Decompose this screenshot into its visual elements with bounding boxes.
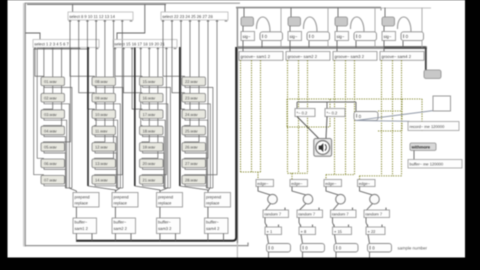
top cord bus along window top (left section) [27, 3, 166, 5]
cord select outlet 6 to wav box 13.wav [95, 20, 114, 159]
svg-text:+ 1: + 1 [267, 229, 273, 234]
message box 26.wav [182, 143, 206, 152]
cord 08.wav outlet to prepend replace 2 [95, 86, 123, 188]
outlet tick 7 of select 8 9 10 11 12 13 14 [121, 20, 124, 22]
object box select 8 9 10 11 12 13 14 [68, 12, 133, 20]
object box random 7 number 4 [364, 210, 390, 218]
cord select outlet 7 to wav box 07.wav [34, 48, 88, 176]
svg-text:withmore: withmore [411, 145, 431, 150]
object box groove~ sam4 2 [380, 52, 424, 61]
cord buffer~ sam2 outlet right to bottom bus [130, 234, 132, 241]
signal cord groove~ sam4 outlet 2 down to edge~ [392, 60, 394, 176]
cord number box to bus unit 1 [261, 41, 263, 48]
cord 10.wav outlet to prepend replace 2 [95, 118, 118, 188]
number box near gains [354, 112, 378, 121]
cord from window top down right side of unit 4 [421, 8, 423, 48]
cord from window top down right side of unit 3 [374, 8, 376, 48]
object box prepend replace 2 [112, 193, 138, 208]
object box edge~ 1 [256, 180, 274, 187]
inlet tick of random 7 number 4 [385, 208, 387, 210]
thick cord down left side of column 2 [87, 47, 89, 186]
inlet ticks of + 15 [333, 225, 335, 227]
cord 20.wav outlet to prepend replace 3 [143, 168, 164, 188]
cord + 15 to number box 3 [335, 235, 337, 244]
right patcher window left border [236, 8, 238, 243]
thick dark cord bus from groove bus down and left to buffers [76, 47, 236, 241]
svg-text:buffer~: buffer~ [75, 219, 88, 224]
dark cord drop from bus into stop message box [425, 48, 427, 70]
letterbox bottom black bar [0, 258, 480, 270]
object box buffer~ me 120000 [408, 160, 462, 169]
cord message box to sig~ unit 3 [336, 26, 338, 32]
cord withmore to buffer~ me [413, 151, 415, 160]
cord number box 4 down off-screen [369, 252, 371, 258]
cord select outlet 4 to wav box 25.wav [185, 20, 191, 126]
svg-text:sample number: sample number [398, 245, 428, 250]
svg-text:sam1 2: sam1 2 [75, 226, 89, 231]
svg-text:05.wav: 05.wav [44, 145, 57, 150]
object box *~ 0.2 right [325, 109, 345, 117]
svg-text:23.wav: 23.wav [185, 96, 198, 101]
thin cord from thick cord into prepend 2 [88, 186, 115, 193]
message box 06.wav [41, 159, 65, 168]
right patcher window top border lighter continuation [381, 7, 431, 9]
number box unit 2 [307, 32, 330, 41]
button (bang) 2 [303, 194, 313, 204]
outlet tick 8 of select 15 16 17 18 19 20 21 [174, 48, 177, 50]
message box 01.wav [41, 77, 65, 86]
object box buffer~ sam1 2 [73, 218, 97, 234]
outlet tick 3 of select 22 23 24 25 26 27 28 [180, 20, 183, 22]
cord 28.wav outlet to prepend replace 4 [185, 184, 206, 188]
message box 03.wav [41, 110, 65, 119]
outlet tick 2 of select 1 2 3 4 5 6 7 [43, 48, 46, 50]
message box 10.wav [92, 110, 116, 119]
preset white square [433, 96, 451, 111]
svg-text:24.wav: 24.wav [185, 112, 198, 117]
svg-text:20.wav: 20.wav [143, 161, 156, 166]
outlet tick 6 of select 22 23 24 25 26 27 28 [207, 20, 210, 22]
svg-text:prepend: prepend [114, 194, 130, 199]
letterbox left black bar [0, 0, 8, 270]
message box 09.wav [92, 93, 116, 102]
outlet tick 7 of select 15 16 17 18 19 20 21 [165, 48, 168, 50]
cord 01.wav outlet to prepend replace 1 [44, 86, 72, 188]
outlet tick 2 of select 8 9 10 11 12 13 14 [77, 20, 80, 22]
cord 25.wav outlet to prepend replace 4 [185, 135, 206, 188]
object box + 15 [333, 227, 352, 235]
cord select outlet 4 to wav box 04.wav [44, 48, 62, 127]
svg-text:02.wav: 02.wav [44, 96, 57, 101]
object box + 22 [366, 227, 385, 235]
svg-text:26.wav: 26.wav [185, 145, 198, 150]
svg-text:10.wav: 10.wav [95, 112, 108, 117]
svg-text:edge~: edge~ [325, 181, 337, 186]
cord message box to sig~ unit 4 [383, 26, 385, 32]
svg-text:random 7: random 7 [298, 212, 316, 217]
cord message box to sig~ unit 1 [242, 26, 244, 32]
cord select outlet 2 to wav box 16.wav [124, 48, 142, 94]
cord select outlet 1 to wav box 08.wav [70, 20, 95, 77]
thin cord from thick cord into prepend 4 [180, 186, 208, 193]
svg-text:prepend: prepend [75, 194, 91, 199]
wire from top bus into select 8-14 inlet [72, 4, 74, 12]
outlet tick 3 of select 8 9 10 11 12 13 14 [86, 20, 89, 22]
cord into number box inlet [355, 102, 357, 112]
cord select outlet 5 to wav box 26.wav [185, 20, 200, 143]
cord edge~ 2 to button [292, 187, 306, 195]
svg-text:edge~: edge~ [359, 181, 371, 186]
svg-text:*~ 0.2: *~ 0.2 [297, 110, 309, 115]
cord 06.wav outlet to prepend replace 1 [44, 168, 65, 188]
cord button 4 to random 7 [367, 204, 373, 210]
inlet ticks of + 8 [300, 225, 302, 227]
left patcher window bottom border [25, 245, 249, 247]
left patcher window left border outer [23, 3, 25, 247]
cord 26.wav outlet to prepend replace 4 [185, 151, 206, 188]
object box edge~ 3 [324, 180, 342, 187]
object box select 1 2 3 4 5 6 7 [33, 40, 99, 48]
message box 14.wav [92, 175, 116, 184]
cord 17.wav outlet to prepend replace 3 [143, 118, 166, 188]
message box 11.wav [92, 126, 116, 135]
cord button 1 to random 7 [266, 204, 271, 210]
cord random 7 to + 8 [299, 218, 301, 228]
outlet tick 4 of select 1 2 3 4 5 6 7 [60, 48, 63, 50]
cord 04.wav outlet to prepend replace 1 [44, 135, 65, 188]
cord select outlet 6 to wav box 06.wav [37, 48, 79, 160]
object box buffer~ sam4 2 [205, 218, 229, 234]
cord number box to bus unit 3 [355, 41, 357, 48]
svg-text:11.wav: 11.wav [95, 128, 107, 133]
cord from window top into message box unit 4 [384, 8, 386, 17]
thick cord down left side of column 4 [179, 47, 181, 186]
cord buffer~ sam3 outlet right to bottom bus [175, 234, 177, 241]
svg-text:sig~: sig~ [290, 34, 298, 39]
dashed marquee right group bottom edge [378, 130, 402, 132]
svg-text:sig~: sig~ [243, 34, 251, 39]
inlet ticks of + 22 [367, 225, 369, 227]
message box 28.wav [182, 175, 206, 184]
message box 25.wav [182, 126, 206, 135]
message box 02.wav [41, 93, 65, 102]
svg-text:21.wav: 21.wav [143, 178, 156, 183]
cord into *~ 0.2 right inlet [326, 102, 328, 109]
signal cord horizontal jog into edge~ 4 [360, 175, 402, 177]
signal cord groove~ sam1 outlet 1 down to edge~ [240, 60, 242, 172]
cord buffer~ sam4 outlet left to bottom bus [207, 234, 209, 241]
svg-text:06.wav: 06.wav [44, 161, 57, 166]
cord sig~ to groove~ unit 1 [242, 41, 244, 52]
svg-text:groove~ sam4 2: groove~ sam4 2 [382, 54, 412, 59]
svg-text:record~ me 120000: record~ me 120000 [410, 124, 446, 129]
cord buffer~ sam2 outlet left to bottom bus [114, 234, 116, 241]
cord 03.wav outlet to prepend replace 1 [44, 118, 67, 188]
svg-text:27.wav: 27.wav [185, 161, 198, 166]
svg-text:groove~ sam3 2: groove~ sam3 2 [335, 54, 365, 59]
inlet tick of random 7 number 1 [284, 208, 286, 210]
outlet tick 1 of select 8 9 10 11 12 13 14 [69, 20, 72, 22]
object box groove~ sam1 2 [239, 52, 283, 61]
cord button 2 to random 7 [300, 204, 307, 210]
cord buffer~ sam1 outlet left to bottom bus [75, 234, 77, 241]
svg-text:replace: replace [158, 200, 172, 205]
message box stop (grey) [424, 70, 441, 79]
left patcher window left border [24, 3, 26, 247]
signal cord drop into edge~ 2 inlet [291, 173, 293, 179]
svg-text:prepend: prepend [158, 194, 174, 199]
dashed marquee right group left edge [401, 99, 403, 131]
svg-text:buffer~: buffer~ [206, 219, 219, 224]
outlet tick 7 of select 22 23 24 25 26 27 28 [216, 20, 219, 22]
signal cord groove~ sam3 outlet 3 down to edge~ [354, 60, 356, 174]
object box prepend replace 1 [73, 193, 99, 208]
signal cord groove~ sam2 outlet 2 down to edge~ [298, 60, 300, 173]
cord 13.wav outlet to prepend replace 2 [95, 168, 116, 188]
inlet tick of random 7 number 3 [352, 208, 354, 210]
svg-text:random 7: random 7 [264, 212, 282, 217]
cord edge~ 4 to button [360, 187, 373, 195]
selection marquee around gain objects right edge [329, 99, 331, 127]
looping patch cord unit 1 [256, 17, 270, 32]
message box 04.wav [41, 126, 65, 135]
outlet tick 6 of select 1 2 3 4 5 6 7 [78, 48, 81, 50]
svg-text:+ 22: + 22 [368, 229, 377, 234]
inlet ticks of + 1 [266, 225, 268, 227]
signal cord groove~ sam1 outlet 3 down to edge~ [260, 60, 262, 172]
dashed marquee right group right edge [421, 99, 423, 131]
svg-text:01.wav: 01.wav [44, 79, 57, 84]
cord buffer~ sam4 outlet right to bottom bus [223, 234, 225, 241]
cord 07.wav outlet to prepend replace 1 [44, 184, 65, 188]
object box + 1 [265, 227, 282, 235]
cord manifold from column 3 brackets into prepend inlet [164, 187, 171, 189]
message box 22.wav [182, 77, 206, 86]
cord into *~ 0.2 left inlet [296, 102, 298, 109]
number box unit 1 [260, 32, 283, 41]
signal cord groove~ sam2 outlet 1 down to edge~ [287, 60, 289, 173]
svg-text:select 8 9 10 11 12 13 14: select 8 9 10 11 12 13 14 [69, 14, 115, 19]
svg-text:random 7: random 7 [365, 212, 383, 217]
cord select outlet 3 to wav box 24.wav [181, 20, 185, 110]
svg-text:16.wav: 16.wav [143, 96, 156, 101]
svg-text:random 7: random 7 [332, 212, 350, 217]
svg-text:select 15 16 17 18 19 20 21: select 15 16 17 18 19 20 21 [114, 41, 165, 46]
right patcher window left border lower faint part [236, 243, 238, 258]
signal cord groove~ sam2 outlet 3 down to edge~ [307, 60, 309, 173]
number box sample 4 [368, 244, 392, 253]
message box 20.wav [140, 159, 164, 168]
svg-text:04.wav: 04.wav [44, 128, 57, 133]
cord message box to sig~ unit 2 [289, 26, 291, 32]
object box random 7 number 3 [331, 210, 357, 218]
cord sig~ to groove~ unit 2 [289, 41, 291, 52]
object box edge~ 4 [358, 180, 376, 187]
outlet tick 5 of select 15 16 17 18 19 20 21 [148, 48, 151, 50]
signal cord drop into edge~ 4 inlet [359, 176, 361, 180]
outlet tick 1 of select 1 2 3 4 5 6 7 [34, 48, 37, 50]
signal cord drop into edge~ 1 inlet [257, 172, 259, 180]
object box select 22 23 24 25 26 27 28 [161, 12, 228, 20]
object box sig~ unit 2 [288, 32, 302, 41]
svg-text:13.wav: 13.wav [95, 161, 108, 166]
object box groove~ sam2 2 [286, 52, 330, 61]
left patcher window bottom-right corner stub [247, 243, 249, 247]
message box loop 2 (grey) [288, 17, 301, 26]
cord select outlet 5 to wav box 12.wav [95, 20, 105, 143]
outlet tick 4 of select 15 16 17 18 19 20 21 [139, 48, 142, 50]
cord bus into gain objects [297, 101, 356, 103]
signal cord groove~ sam3 outlet 1 down to edge~ [334, 60, 336, 174]
svg-text:15.wav: 15.wav [143, 79, 156, 84]
object box record~ me 120000 [408, 122, 459, 131]
number box unit 4 [401, 32, 424, 41]
svg-text:buffer~: buffer~ [114, 219, 127, 224]
message box withmore [410, 143, 436, 151]
object box groove~ sam3 2 [333, 52, 377, 61]
right patcher window top border [236, 7, 381, 9]
object box sig~ unit 1 [241, 32, 255, 41]
signal cord horizontal jog into edge~ 2 [288, 172, 308, 174]
message box 16.wav [140, 93, 164, 102]
selection marquee around gain objects bottom edge [287, 126, 330, 128]
svg-text:+ 8: + 8 [301, 229, 307, 234]
cord select outlet 4 to wav box 18.wav [141, 48, 142, 127]
svg-text:28.wav: 28.wav [185, 178, 198, 183]
dark overlapping cord segment of bus [384, 46, 426, 49]
message box 12.wav [92, 143, 116, 152]
cord 19.wav outlet to prepend replace 3 [143, 151, 164, 188]
message box loop 3 (grey) [335, 17, 348, 26]
signal cord drop into edge~ 3 inlet [325, 175, 327, 180]
message box 17.wav [140, 110, 164, 119]
outlet tick 3 of select 1 2 3 4 5 6 7 [51, 48, 54, 50]
message box 24.wav [182, 110, 206, 119]
cord select outlet 3 to wav box 17.wav [132, 48, 142, 110]
svg-text:replace: replace [75, 200, 89, 205]
cord number box 1 down off-screen [268, 252, 270, 258]
cord select outlet 7 to wav box 21.wav [142, 48, 166, 176]
outlet tick 1 of select 15 16 17 18 19 20 21 [114, 48, 117, 50]
number box sample 1 [267, 244, 291, 253]
svg-text:sig~: sig~ [384, 34, 392, 39]
button (bang) 1 [268, 194, 278, 204]
cord 09.wav outlet to prepend replace 2 [95, 102, 120, 188]
cord 14.wav outlet to prepend replace 2 [95, 184, 116, 188]
cord buffer~ sam3 outlet left to bottom bus [159, 234, 161, 241]
number box sample 3 [334, 244, 358, 253]
svg-text:select 22 23 24 25 26 27 28: select 22 23 24 25 26 27 28 [162, 14, 213, 19]
message box 27.wav [182, 159, 206, 168]
cord number box to preset square [356, 111, 434, 121]
cord edge~ 3 to button [326, 187, 338, 195]
button (bang) 3 [336, 194, 346, 204]
svg-text:replace: replace [206, 200, 220, 205]
looping patch cord unit 2 [303, 17, 317, 32]
svg-text:buffer~ me 120000: buffer~ me 120000 [410, 162, 444, 167]
cord prepend 1 to buffer~ sam1 [75, 207, 77, 218]
cord select outlet 1 to wav box 15.wav [115, 48, 142, 78]
cord select outlet 2 to wav box 23.wav [172, 20, 185, 93]
cord + 22 to number box 4 [368, 235, 370, 244]
cord manifold from column 2 brackets into prepend inlet [116, 187, 123, 189]
looping patch cord unit 3 [350, 17, 364, 32]
looping patch cord unit 4 [397, 17, 411, 32]
signal cord horizontal jog into edge~ 1 [241, 171, 261, 173]
svg-text:sam3 2: sam3 2 [158, 226, 172, 231]
outlet tick 3 of select 15 16 17 18 19 20 21 [131, 48, 134, 50]
cord number box to bus unit 4 [402, 41, 404, 48]
outlet tick 4 of select 22 23 24 25 26 27 28 [189, 20, 192, 22]
cord select outlet 6 to wav box 27.wav [185, 20, 209, 159]
left patcher window top border [25, 2, 241, 4]
cord manifold from column 4 brackets into prepend inlet [206, 187, 213, 189]
object box random 7 number 2 [297, 210, 323, 218]
outlet tick 6 of select 15 16 17 18 19 20 21 [157, 48, 160, 50]
outlet tick 7 of select 1 2 3 4 5 6 7 [87, 48, 90, 50]
grey horizontal cord bus above groove~ row [237, 46, 427, 49]
letterbox right black bar [465, 0, 480, 270]
svg-text:22.wav: 22.wav [185, 79, 198, 84]
svg-text:*~ 0.2: *~ 0.2 [327, 110, 339, 115]
cord *~ left to ezdac~ left inlet [297, 117, 319, 139]
object box sig~ unit 4 [382, 32, 396, 41]
cord sig~ to groove~ unit 3 [336, 41, 338, 52]
object box random 7 number 1 [263, 210, 289, 218]
cord number box 3 down off-screen [335, 252, 337, 258]
outlet tick 1 of select 22 23 24 25 26 27 28 [162, 20, 165, 22]
object box + 8 [299, 227, 316, 235]
cord select outlet 7 to wav box 14.wav [95, 20, 123, 175]
svg-text:+ 15: + 15 [334, 229, 343, 234]
cord number box to record~ inlet [356, 120, 410, 123]
svg-text:groove~ sam1 2: groove~ sam1 2 [241, 54, 271, 59]
cord from window top down right side of unit 1 [280, 8, 282, 48]
signal cord groove~ sam4 outlet 1 down to edge~ [381, 60, 383, 176]
svg-text:14.wav: 14.wav [95, 178, 108, 183]
message box loop 4 (grey) [382, 17, 395, 26]
svg-text:12.wav: 12.wav [95, 145, 108, 150]
number box unit 3 [354, 32, 377, 41]
dashed marquee right group inner horizontal [378, 110, 401, 112]
outlet tick 6 of select 8 9 10 11 12 13 14 [112, 20, 115, 22]
svg-text:edge~: edge~ [257, 181, 269, 186]
cord 23.wav outlet to prepend replace 4 [185, 102, 210, 188]
cord 21.wav outlet to prepend replace 3 [143, 184, 164, 188]
cord random 7 to + 22 [366, 218, 368, 228]
object box buffer~ sam3 2 [157, 218, 181, 234]
signal cord groove~ sam3 outlet 2 down to edge~ [345, 60, 347, 174]
outlet tick 4 of select 8 9 10 11 12 13 14 [95, 20, 98, 22]
svg-text:sam4 2: sam4 2 [206, 226, 220, 231]
cord edge~ 1 to button [258, 187, 270, 195]
svg-text:edge~: edge~ [291, 181, 303, 186]
cord from window top into message box unit 3 [337, 8, 339, 17]
wire from left border into select 1-7 inlet [26, 33, 41, 40]
outlet tick 5 of select 22 23 24 25 26 27 28 [198, 20, 201, 22]
message box 15.wav [140, 77, 164, 86]
object box *~ 0.2 left [295, 109, 315, 117]
message box 18.wav [140, 126, 164, 135]
cord + 8 to number box 2 [301, 235, 303, 244]
cord 15.wav outlet to prepend replace 3 [143, 86, 171, 188]
cord select outlet 1 to wav box 22.wav [163, 20, 185, 77]
thick cord down left side of column 3 [134, 48, 136, 187]
svg-text:prepend: prepend [206, 194, 222, 199]
cord 22.wav outlet to prepend replace 4 [185, 86, 213, 188]
cord random 7 to + 15 [333, 218, 335, 228]
signal cord horizontal jog into edge~ 3 [326, 174, 355, 176]
